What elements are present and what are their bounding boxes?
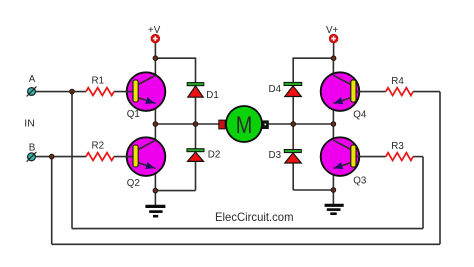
supply terminal V+ (right) [329,34,338,43]
resistor R2 [86,153,114,161]
wire: right ground stub [332,190,334,204]
wire: node B vertical down [51,157,53,245]
motor M [219,106,268,142]
wire: D1 anode down to motor node [195,97,197,124]
wire: Q4 emitter vertical to motor node [332,102,334,124]
junction: right ground node [331,188,336,193]
diode D2 [187,149,204,162]
wire: input B to R2 [35,156,86,158]
svg-text:D2: D2 [208,149,221,160]
svg-text:Q4: Q4 [353,110,367,121]
resistor R3 [386,153,413,161]
svg-text:M: M [236,112,253,139]
wire: Q4 collector vertical [332,58,334,75]
transistor Q3 [321,137,361,176]
wire: D3 cathode up to motor node [292,124,294,150]
diode D4 [284,82,302,96]
terminal A [27,87,37,97]
wire: left ground row [155,190,195,192]
wire: R3 to Q3 base bar [356,156,386,158]
wire: vertical up to R4 [439,92,441,245]
svg-text:R2: R2 [92,141,105,152]
junction: left motor node [153,122,158,127]
diode D1 [187,83,204,98]
svg-text:R1: R1 [92,76,105,87]
wire: motor row left [155,123,219,125]
wire: Q2 emitter vertical [154,167,156,190]
supply terminal +V (left) [151,34,160,43]
wire: left ground stub [154,191,156,205]
svg-text:R4: R4 [391,76,404,87]
wire: Q3 emitter vertical [332,167,334,190]
wire: +V stub left [154,43,156,58]
wire: Q2 collector vertical [154,124,156,140]
wire: Q1 emitter vertical to motor node [154,102,156,124]
svg-text:D3: D3 [269,150,282,161]
junction: left ground node [153,188,158,193]
wire: R4 to Q4 base bar [356,91,386,93]
resistor R1 [86,88,114,96]
junction: +V rail left [153,56,158,61]
ground (right) [325,205,344,213]
svg-text:D4: D4 [269,84,282,95]
svg-text:V+: V+ [326,25,339,36]
wire: bottom outer horizontal (B to R4) [52,243,440,245]
svg-text:D1: D1 [206,90,219,101]
svg-text:Q3: Q3 [353,176,367,187]
wire: R3 right lead [413,156,423,158]
svg-text:+V: +V [148,25,161,36]
svg-text:R3: R3 [391,141,404,152]
wire: Q1 collector vertical [154,58,156,75]
transistor Q4 [321,72,361,111]
junction: right motor node [331,122,336,127]
wire: D4 anode down to motor node [292,97,294,125]
svg-text:Q1: Q1 [127,109,140,120]
wire: right ground row [293,189,333,191]
terminal B [27,152,37,162]
transistor Q2 [126,137,166,176]
svg-text:B: B [29,142,36,153]
wire: R4 right lead [413,91,440,93]
wire: D2 anode down to ground row [195,161,197,190]
wire: motor row right [268,123,333,125]
wire: left top rail to D1 [155,58,195,82]
junction: node B [49,154,54,159]
ground (left) [145,206,165,216]
wire: node A vertical down [71,92,73,229]
wire: bottom inner horizontal (A to R3) [72,228,423,230]
wire: input A to R1 and Q1 base [35,91,86,93]
wire: D3 anode down to ground row [292,163,294,190]
junction: node A [70,89,75,94]
wire: R2 to Q2 base bar [114,156,134,158]
resistor R4 [386,88,413,96]
junction: D1-D2 motor node [193,122,198,127]
svg-text:IN: IN [24,118,35,130]
svg-text:Q2: Q2 [127,178,140,189]
wire: right top rail to D4 [293,58,333,82]
wire: D2 cathode up to motor node [195,124,197,149]
svg-text:ElecCircuit.com: ElecCircuit.com [215,210,294,224]
transistor Q1 [126,72,166,111]
wire: R1 to Q1 base bar [114,91,134,93]
svg-text:A: A [29,74,36,85]
wire: Q3 collector vertical [332,124,334,140]
diode D3 [284,150,301,164]
junction: V+ rail right [331,56,336,61]
junction: D4-D3 motor node [291,122,296,127]
wire: vertical up to R3 [422,157,424,229]
wire: V+ stub right [333,43,335,58]
